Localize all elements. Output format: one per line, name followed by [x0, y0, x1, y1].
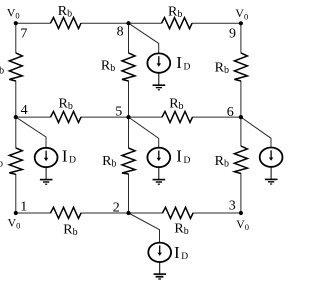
wire node1 to R_b 1-2 [16, 212, 51, 214]
node 8 junction dot [126, 21, 130, 25]
svg-text:3: 3 [229, 198, 236, 213]
current source I_D at node 8 [147, 53, 170, 72]
wire node6 to current source tap [241, 117, 271, 148]
resistor R_b 5-2 [122, 148, 135, 174]
node 9 junction dot [239, 21, 243, 25]
wire node5 to R_b 5-6 [129, 116, 163, 118]
wire node8 to R_b 8-5 [128, 23, 130, 53]
resistor R_b 7-4 [9, 53, 22, 81]
current source I_D at node 2 [148, 243, 171, 262]
node 2 junction dot [126, 211, 130, 215]
wire node6 to R_b 6-3 [240, 117, 242, 146]
current source I_D at node 5 [147, 148, 170, 167]
current source I_D at node 6 [260, 148, 283, 167]
wire R_b 8-9 to node9 [192, 22, 241, 24]
wire R_b 7-8 to node8 [81, 22, 129, 24]
svg-text:b: b [0, 158, 3, 169]
resistor R_b 7-8 [51, 18, 82, 29]
ground of I_D at node 4 [40, 167, 53, 184]
node 1 junction dot [14, 211, 18, 215]
resistor R_b 8-5 [122, 53, 135, 81]
wire node7 to R_b 7-4 [15, 23, 17, 53]
svg-text:6: 6 [227, 105, 234, 120]
wire node5 to R_b 5-2 [128, 117, 130, 148]
wire node8 to R_b 8-9 [129, 22, 162, 24]
wire R_b 5-2 to node2 [128, 174, 130, 213]
wire R_b 1-2 to node2 [81, 212, 129, 214]
resistor R_b 1-2 [51, 207, 82, 218]
wire node4 to R_b 4-5 [16, 116, 51, 118]
resistor R_b 4-1 [9, 148, 22, 174]
wire node7 to R_b 7-8 [16, 22, 51, 24]
wire node9 to R_b 9-6 [240, 23, 242, 53]
wire R_b 8-5 to node5 [128, 81, 130, 117]
wire R_b 6-3 to node3 [240, 174, 242, 214]
ground of I_D at node 6 [265, 167, 278, 185]
wire node2 to current source tap [129, 213, 160, 243]
ground of I_D at node 8 [153, 72, 166, 89]
svg-text:1: 1 [20, 200, 27, 215]
wire R_b 9-6 to node6 [240, 81, 242, 117]
node 6 junction dot [239, 115, 243, 119]
node 3 junction dot [239, 211, 243, 215]
ground of I_D at node 5 [153, 167, 166, 185]
wire node4 to current source tap [16, 117, 46, 148]
resistor R_b 5-6 [162, 111, 193, 122]
current source I_D at node 4 [35, 148, 58, 167]
wire R_b 2-3 to node3 [193, 212, 241, 214]
resistor R_b 2-3 [163, 207, 194, 218]
svg-text:9: 9 [229, 27, 236, 42]
svg-text:7: 7 [20, 27, 27, 42]
resistor R_b 8-9 [162, 18, 193, 29]
wire node8 to current source tap [129, 23, 159, 54]
svg-text:2: 2 [113, 201, 120, 216]
node 4 junction dot [14, 115, 18, 119]
node 5 junction dot [126, 115, 130, 119]
wire node2 to R_b 2-3 [129, 212, 163, 214]
svg-text:5: 5 [115, 104, 122, 119]
ground of I_D at node 2 [154, 262, 167, 279]
resistor R_b 6-3 [234, 146, 247, 174]
wire node4 to R_b 4-1 [15, 117, 17, 148]
node 7 junction dot [14, 21, 18, 25]
svg-text:8: 8 [117, 25, 124, 40]
wire R_b 4-1 to node1 [15, 174, 17, 213]
wire R_b 4-5 to node5 [81, 116, 129, 118]
resistor R_b 4-5 [51, 111, 82, 122]
wire R_b 5-6 to node6 [193, 116, 241, 118]
wire R_b 7-4 to node4 [15, 81, 17, 117]
svg-text:4: 4 [21, 103, 28, 118]
resistor R_b 9-6 [234, 53, 247, 81]
wire node5 to current source tap [129, 117, 159, 148]
svg-text:b: b [0, 66, 4, 77]
